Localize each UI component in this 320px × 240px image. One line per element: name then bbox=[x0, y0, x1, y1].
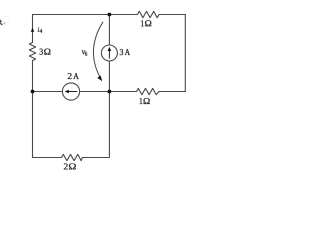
label 2 ohm bottom bbox=[64, 163, 76, 169]
wire mid column top to source bbox=[108, 15, 110, 46]
artifact mark top-left edge bbox=[0, 18, 3, 25]
wire mid row right of 2A bbox=[80, 91, 137, 93]
wire left column lower bbox=[32, 61, 34, 158]
voltage arc vb bbox=[93, 22, 103, 79]
label 1 ohm middle bbox=[140, 98, 150, 104]
wire mid row right segment bbox=[159, 91, 185, 93]
node junction dot left middle bbox=[31, 90, 35, 94]
resistor R2 3ohm left zigzag bbox=[29, 43, 35, 61]
arrow inside 3A source bbox=[108, 47, 112, 59]
wire mid row left of 2A bbox=[33, 91, 63, 93]
wire top-left segment bbox=[33, 14, 138, 16]
label 3 ohm bbox=[40, 49, 51, 55]
label 1 ohm top bbox=[141, 20, 151, 26]
wire right column bbox=[184, 15, 186, 92]
arrow current i4 on left wire bbox=[31, 28, 35, 32]
node junction dot top middle bbox=[108, 13, 112, 17]
current source U1 3A circle bbox=[101, 45, 117, 61]
wire left column upper bbox=[32, 15, 34, 43]
current source U2 2A circle bbox=[62, 83, 79, 100]
wire bottom-right segment bbox=[83, 157, 110, 159]
arrowhead of voltage arc bbox=[97, 76, 102, 82]
arrow inside 2A source bbox=[65, 90, 78, 94]
label vb bbox=[82, 50, 87, 55]
wire bottom-left segment bbox=[33, 157, 62, 159]
label 3 A bbox=[120, 49, 130, 55]
label i4 bbox=[38, 27, 42, 32]
label 2 A bbox=[68, 73, 79, 79]
resistor R4 2ohm bottom zigzag bbox=[62, 154, 83, 160]
resistor R3 1ohm middle zigzag bbox=[137, 88, 160, 94]
resistor R1 1ohm top zigzag bbox=[138, 11, 160, 17]
wire top-right segment bbox=[159, 14, 185, 16]
node junction dot center bbox=[108, 90, 112, 94]
wire mid column below source bbox=[108, 61, 110, 158]
